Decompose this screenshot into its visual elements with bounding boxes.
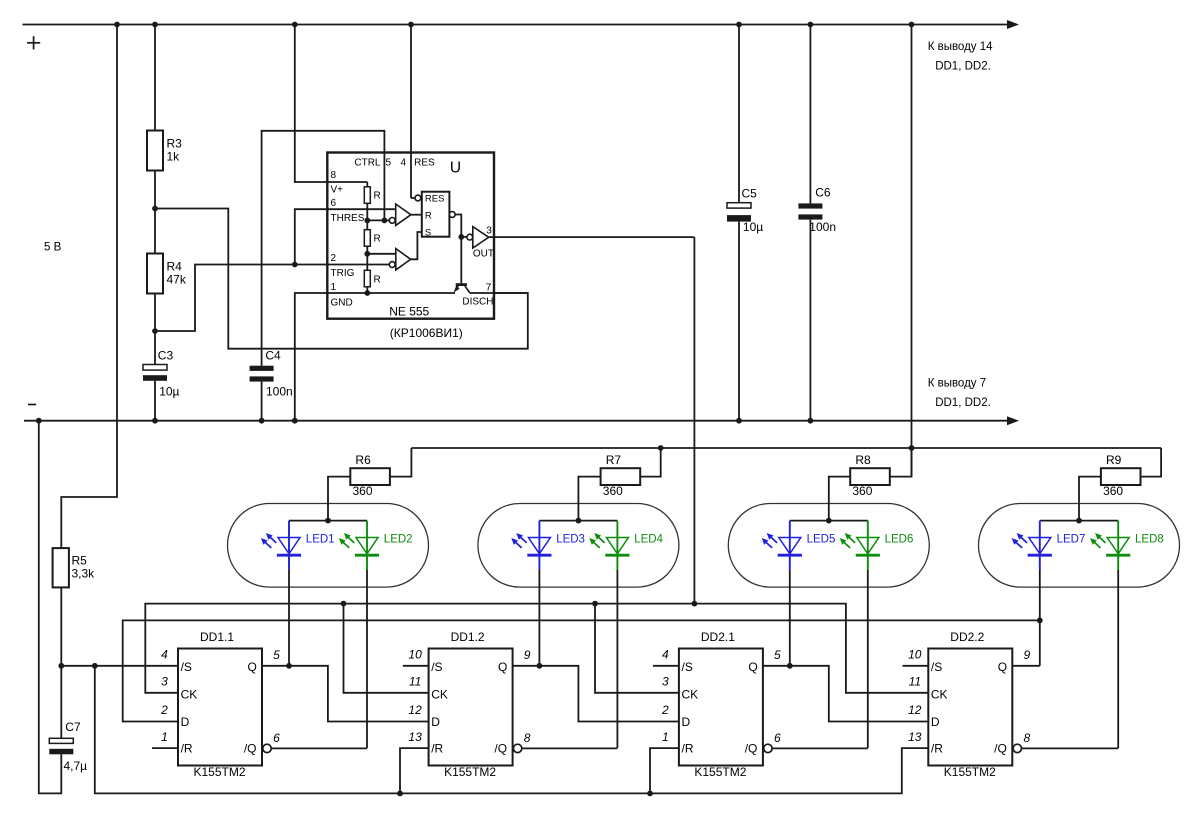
wire: +5V rail down to LED resistor feed line [911, 25, 913, 477]
svg-text:/S: /S [682, 660, 693, 674]
LED group 4 oval enclosure [979, 504, 1180, 588]
wire: R4 bottom to C3 top [154, 294, 156, 332]
resistor R6 [350, 468, 390, 485]
svg-text:8: 8 [1023, 731, 1030, 745]
wire: LED7 cathode to DD2.2 Q / feedback bus [1039, 570, 1041, 666]
svg-text:11: 11 [409, 675, 421, 689]
LED group 3 oval enclosure [728, 504, 929, 588]
wire: DD1.2 /R to reset bus [400, 748, 429, 793]
flip-flop box inside 555 [422, 192, 450, 237]
wire: DD1.2 /S stub pin 10 [403, 665, 429, 667]
resistor R5 [53, 548, 69, 587]
bubble: comparator 1 inverting input [389, 218, 395, 224]
svg-text:K155TM2: K155TM2 [944, 765, 996, 779]
svg-text:/Q: /Q [244, 741, 257, 755]
wire: comparator 1 output to FF R input [411, 214, 422, 216]
svg-text:6: 6 [774, 731, 781, 745]
svg-text:CK: CK [931, 688, 948, 702]
svg-text:К выводу 14: К выводу 14 [928, 41, 993, 53]
svg-text:RES: RES [425, 194, 445, 205]
node: anode bar junction [826, 518, 832, 524]
svg-text:D: D [181, 715, 190, 729]
flip-flop DD1.2 (K155TM2) [429, 649, 513, 766]
pin names inside DD2.2 [931, 660, 1007, 756]
svg-text:5 В: 5 В [44, 242, 62, 254]
node: anode bar junction [325, 518, 331, 524]
capacitor C3 (10u polarized) [154, 331, 156, 365]
wire: DD2.1 Q to DD2.2 D [763, 666, 928, 722]
transistor Q1 emitter leg with arrow [455, 286, 458, 290]
wire: RC node to DD1.1 /S pin 4 [61, 665, 178, 667]
svg-text:LED6: LED6 [885, 533, 914, 545]
svg-text:8: 8 [331, 170, 337, 181]
wire: R3 bottom to R3/R4 junction [154, 171, 156, 209]
svg-text:DD1.1: DD1.1 [200, 630, 234, 644]
svg-text:10: 10 [908, 648, 922, 662]
wire: DD2.1 /Q to LED6 cathode [772, 747, 868, 749]
node: RC node junction dots [58, 663, 64, 669]
svg-text:C6: C6 [815, 186, 831, 200]
svg-text:C7: C7 [65, 720, 81, 734]
wire: divider bottom to internal ground [366, 287, 368, 293]
svg-text:10µ: 10µ [743, 220, 763, 234]
svg-text:LED7: LED7 [1057, 533, 1086, 545]
wire: LED5 cathode to DD2.1 Q [789, 570, 791, 666]
svg-text:C5: C5 [742, 187, 758, 201]
wire: divider R2-R3 link [366, 246, 368, 270]
resistor R7 [601, 468, 641, 485]
op-amp U1: NE 555 timer block [327, 153, 494, 319]
svg-text:DD1.2: DD1.2 [451, 630, 485, 644]
svg-text:K155TM2: K155TM2 [694, 765, 746, 779]
flip-flop DD2.2 (K155TM2) [928, 649, 1012, 766]
svg-text:/S: /S [181, 660, 192, 674]
wire: DD1.1 /R stub pin 1 [152, 747, 178, 749]
pin names inside DD1.1 [181, 660, 257, 756]
wire: DD1.1 Q to DD1.2 D [262, 666, 429, 722]
wire: LED1 cathode to DD1.1 Q [288, 570, 290, 666]
svg-text:TRIG: TRIG [331, 268, 355, 279]
svg-text:C3: C3 [158, 349, 174, 363]
op-amp comparator 2 (trigger) [396, 249, 411, 270]
wire: divider mid tap to comparator 2 non-inverting input [367, 253, 396, 255]
svg-text:/R: /R [931, 742, 943, 756]
svg-text:/Q: /Q [745, 741, 758, 755]
svg-text:100n: 100n [266, 385, 293, 399]
wire: DISCH return path R3/R4 junction to pin 7 [155, 209, 528, 349]
svg-text:9: 9 [524, 648, 531, 662]
svg-text:DD2.1: DD2.1 [701, 630, 735, 644]
wire: R5 bottom to RC node [60, 587, 62, 665]
LED group 1 oval enclosure [228, 504, 429, 588]
wire: transistor base feed [460, 237, 462, 283]
svg-text:/Q: /Q [994, 741, 1007, 755]
capacitor C7 (4,7u polarized) [60, 666, 62, 739]
capacitor C6 (100n) supply filter [809, 25, 811, 204]
wire: comparator 2 output to FF S input [411, 232, 422, 259]
wire: reference node to comparator 1 inverting input [367, 219, 389, 221]
wire: LED2 cathode to DD1.1 /Q [366, 570, 368, 748]
svg-text:LED1: LED1 [306, 533, 335, 545]
node: divider bottom junction [364, 290, 370, 296]
wire: junction to R4 top [154, 209, 156, 254]
resistor R8 [850, 468, 890, 485]
bubble: DD2.2 /Q output [1013, 744, 1021, 752]
svg-text:2: 2 [661, 703, 669, 717]
svg-text:360: 360 [603, 484, 623, 498]
svg-text:5: 5 [386, 158, 392, 169]
svg-text:10: 10 [408, 648, 422, 662]
flip-flop DD1.1 (K155TM2) [178, 649, 262, 766]
svg-text:CTRL: CTRL [354, 158, 381, 169]
svg-text:/Q: /Q [494, 741, 507, 755]
svg-text:1k: 1k [167, 150, 181, 164]
wire: anode bar for LED1/LED2 [289, 520, 367, 522]
capacitor C4 (100n) on CTRL pin 5 [262, 131, 385, 366]
svg-text:/R: /R [431, 742, 443, 756]
bubble: FF inverted output [449, 212, 455, 218]
svg-text:Q: Q [998, 660, 1007, 674]
svg-text:LED2: LED2 [384, 533, 413, 545]
svg-text:R3: R3 [167, 137, 183, 151]
LED LED1 (blue) [261, 521, 301, 570]
svg-text:LED8: LED8 [1135, 533, 1164, 545]
wire: R9 left terminal down to LED anodes [1079, 477, 1101, 521]
svg-text:/R: /R [682, 742, 694, 756]
svg-text:47k: 47k [167, 273, 187, 287]
LED LED5 (blue) [762, 521, 802, 570]
LED group 2 oval enclosure [478, 504, 679, 588]
wire: DD1.1 /Q to LED2 cathode [271, 747, 367, 749]
svg-text:3: 3 [662, 675, 669, 689]
svg-text:1: 1 [161, 730, 168, 744]
wire: R6 right terminal up to feed line [390, 448, 412, 477]
svg-text:5: 5 [774, 648, 781, 662]
wire: OUT pin 3 to clock bus [489, 236, 695, 238]
wire: anode bar for LED3/LED4 [539, 520, 617, 522]
svg-text:R: R [374, 275, 381, 286]
svg-text:Q: Q [247, 660, 256, 674]
pin numbers DD1.1 right: 5 6 [273, 648, 280, 745]
svg-text:11: 11 [909, 675, 921, 689]
svg-text:D: D [931, 715, 940, 729]
LED LED3 (blue) [511, 521, 551, 570]
wire: DD2.2 Q up to feedback bus [1012, 665, 1040, 667]
svg-text:R: R [374, 191, 381, 202]
svg-text:CK: CK [682, 688, 699, 702]
wire: DISCH pin 7 out of chip [470, 292, 528, 294]
flip-flop DD2.1 (K155TM2) [679, 649, 763, 766]
bubble: FF RES input [415, 195, 421, 201]
node: anode bar junction [576, 518, 582, 524]
wire: divider R1-R2 link [366, 203, 368, 229]
svg-text:K155TM2: K155TM2 [444, 765, 496, 779]
LED LED2 (green) [339, 521, 379, 570]
wire: +5V rail down to R5 [61, 25, 117, 549]
capacitor C5 (10u polarized) supply filter [738, 25, 740, 203]
wire: R7 right terminal up to feed line [640, 448, 661, 477]
node: TRIG junction dot [292, 262, 298, 268]
wire: R7 left terminal down to LED anodes [578, 477, 600, 521]
svg-text:6: 6 [273, 731, 280, 745]
svg-text:6: 6 [331, 198, 337, 209]
transistor Q1 collector leg to DISCH pin 7 [465, 286, 470, 293]
pin numbers DD2.1 right: 5 6 [774, 648, 781, 745]
pin numbers DD2.2 right: 9 8 [1023, 648, 1030, 745]
resistor R (divider middle) [364, 230, 370, 247]
bubble: comparator 2 inverting input [389, 262, 395, 268]
junction dots on +5V rail [114, 22, 914, 28]
svg-text:R: R [425, 211, 432, 222]
junction dots on 0V rail [36, 418, 813, 424]
svg-text:4: 4 [161, 648, 168, 662]
wire: LED6 cathode to DD2.1 /Q [867, 570, 869, 748]
svg-text:THRES: THRES [331, 213, 365, 224]
svg-text:CK: CK [431, 688, 448, 702]
svg-text:1: 1 [662, 730, 669, 744]
svg-text:5: 5 [273, 648, 280, 662]
svg-text:4,7µ: 4,7µ [64, 759, 88, 773]
svg-text:DD1, DD2.: DD1, DD2. [935, 61, 991, 73]
wire: DD1.2 Q to DD2.1 D [513, 666, 679, 722]
svg-text:DISCH: DISCH [462, 297, 493, 308]
wire: internal ground bus to transistor emitter [328, 292, 455, 294]
svg-text:100n: 100n [809, 220, 836, 234]
wire: clock bus tap to DD1.2 CK [344, 604, 429, 693]
wire: DD2.1 /S stub pin 4 [653, 665, 679, 667]
wire: +5V rail to V+ pin 8 [295, 25, 329, 183]
wire: LED resistor feed line [411, 447, 1161, 449]
svg-text:NE 555: NE 555 [389, 305, 429, 319]
svg-text:R6: R6 [355, 453, 371, 467]
junction dots on clock bus [341, 601, 347, 607]
wire: clock bus from 555 OUT to all CK pins [145, 604, 928, 693]
svg-text:3,3k: 3,3k [72, 567, 96, 581]
wire: DD2.1 /R to reset bus [650, 748, 679, 793]
svg-text:R5: R5 [72, 554, 88, 568]
minus terminal symbol [28, 404, 36, 406]
svg-text:4: 4 [401, 158, 407, 169]
bubble: DD1.2 /Q output [513, 744, 521, 752]
svg-text:2: 2 [331, 253, 337, 264]
pin names inside DD2.1 [682, 660, 758, 756]
transistor Q1 discharge: base bar [456, 283, 467, 286]
svg-text:360: 360 [352, 484, 372, 498]
wire: LED3 cathode to DD1.2 Q [538, 570, 540, 666]
wire: R9 right terminal up to feed line end [1141, 448, 1162, 477]
svg-text:13: 13 [908, 730, 922, 744]
pin numbers DD2.2 left: 10 11 12 13 [908, 648, 922, 745]
svg-text:D: D [682, 715, 691, 729]
wire: LED8 cathode to DD2.2 /Q [1117, 570, 1119, 748]
wire: RC node reset bus along bottom [95, 666, 929, 794]
wire: DD2.2 /Q to LED8 cathode [1022, 747, 1119, 749]
svg-text:R8: R8 [855, 453, 871, 467]
svg-text:8: 8 [524, 731, 531, 745]
svg-text:360: 360 [1103, 484, 1123, 498]
wire: R8 left terminal down to LED anodes [829, 477, 850, 521]
svg-text:360: 360 [852, 484, 872, 498]
op-amp output buffer [473, 227, 489, 248]
LED LED7 (blue) [1012, 521, 1052, 570]
svg-text:CK: CK [181, 688, 198, 702]
resistor R (divider top) [364, 187, 370, 204]
wire: DD1.2 /Q to LED4 cathode [522, 747, 618, 749]
wire: junction to buffer input [461, 236, 467, 238]
svg-text:DD1, DD2.: DD1, DD2. [935, 397, 991, 409]
bubble: DD2.1 /Q output [764, 744, 772, 752]
svg-text:D: D [431, 715, 440, 729]
arrowhead on 0V rail (to pin 7 of DD1, DD2) [1007, 416, 1019, 425]
svg-text:OUT: OUT [473, 249, 494, 260]
wire: LED4 cathode to DD1.2 /Q [616, 570, 618, 748]
bubble: DD1.1 /Q output [263, 744, 271, 752]
resistor R (divider bottom) [364, 270, 370, 287]
LED LED6 (green) [840, 521, 880, 570]
resistor R9 [1101, 468, 1141, 485]
svg-text:C4: C4 [265, 349, 281, 363]
svg-text:К выводу 7: К выводу 7 [928, 377, 986, 389]
resistor R3 [147, 131, 163, 171]
node: anode bar junction [1076, 518, 1082, 524]
wire: TRIG pin 2 into comparator 2 [328, 264, 389, 266]
svg-text:Q: Q [498, 660, 507, 674]
op-amp comparator 1 (threshold) [396, 204, 411, 225]
wire: C7 bottom to 0V rail [39, 421, 62, 794]
wire: anode bar for LED5/LED6 [790, 520, 868, 522]
svg-text:DD2.2: DD2.2 [950, 630, 984, 644]
svg-text:U: U [450, 160, 461, 177]
wire: feedback bus DD2.2 Q to DD1.1 D [123, 620, 1040, 721]
wire: anode bar for LED7/LED8 [1040, 520, 1118, 522]
svg-text:10µ: 10µ [159, 385, 179, 399]
wire: CTRL pin 5 to comparator reference [383, 153, 385, 221]
wire: R8 right terminal up to feed line [890, 448, 912, 477]
wire: R4 bottom node to TRIG/THRES net [155, 265, 328, 332]
wire: GND pin 1 to 0V rail [295, 293, 329, 421]
pin numbers DD1.1 left: 4 3 2 1 [160, 648, 168, 745]
svg-text:Q: Q [748, 660, 757, 674]
wire: THRES pin down to TRIG net [295, 209, 329, 264]
svg-text:3: 3 [161, 675, 168, 689]
wire: clock bus tap to DD2.1 CK [595, 604, 679, 693]
wire: +5V rail to R3 top [154, 25, 156, 131]
svg-text:LED5: LED5 [807, 533, 836, 545]
svg-text:7: 7 [486, 283, 492, 294]
svg-text:R7: R7 [606, 453, 622, 467]
svg-text:R9: R9 [1106, 453, 1122, 467]
wire: 0V bottom supply rail [24, 420, 1007, 422]
node: R3/R4 junction (DISCH node) [152, 206, 158, 212]
svg-text:R4: R4 [167, 260, 183, 274]
wire: RES pin 4 from +5V rail [410, 25, 412, 199]
svg-text:GND: GND [331, 298, 353, 309]
svg-text:R: R [374, 234, 381, 245]
wire: FF output to out-buffer and transistor [455, 215, 461, 237]
svg-text:2: 2 [160, 703, 168, 717]
wire: DD2.2 /S stub pin 10 [903, 665, 929, 667]
svg-text:9: 9 [1023, 648, 1030, 662]
wire: THRES pin 6 into comparator 1 [328, 208, 395, 210]
svg-text:(КР1006ВИ1): (КР1006ВИ1) [390, 326, 463, 340]
plus terminal symbol [27, 36, 40, 49]
svg-text:1: 1 [331, 282, 337, 293]
wire: internal V+ to divider [328, 181, 367, 183]
pin names inside DD1.2 [431, 660, 507, 756]
wire: R6 left terminal down to LED anodes [328, 477, 350, 521]
svg-text:12: 12 [408, 703, 422, 717]
LED LED4 (green) [589, 521, 629, 570]
svg-text:13: 13 [408, 730, 422, 744]
svg-text:V+: V+ [331, 185, 344, 196]
node: output node junction [458, 234, 464, 240]
svg-text:/R: /R [181, 742, 193, 756]
pin numbers DD1.2 right: 9 8 [524, 648, 531, 745]
arrowhead on +5V rail (to pin 14 of DD1, DD2) [1007, 20, 1019, 29]
svg-text:/S: /S [431, 660, 442, 674]
svg-text:/S: /S [931, 660, 942, 674]
svg-text:4: 4 [662, 648, 669, 662]
resistor R4 [147, 254, 163, 294]
bubble: output buffer inverting input [467, 234, 473, 240]
LED LED8 (green) [1090, 521, 1130, 570]
svg-text:RES: RES [414, 158, 435, 169]
svg-text:LED3: LED3 [556, 533, 585, 545]
svg-text:S: S [425, 228, 431, 239]
pin numbers DD1.2 left: 10 11 12 13 [408, 648, 422, 745]
svg-text:LED4: LED4 [634, 533, 663, 545]
svg-text:12: 12 [908, 703, 922, 717]
pin numbers DD2.1 left: 4 3 2 1 [661, 648, 669, 745]
node: feedback bus junction at LED7 cathode [1037, 618, 1043, 624]
svg-text:3: 3 [486, 226, 492, 237]
junction dots on feed line [658, 445, 664, 451]
wire: +5V top supply rail [23, 24, 1008, 26]
junction dots on reset bus [397, 791, 403, 797]
svg-text:K155TM2: K155TM2 [193, 765, 245, 779]
